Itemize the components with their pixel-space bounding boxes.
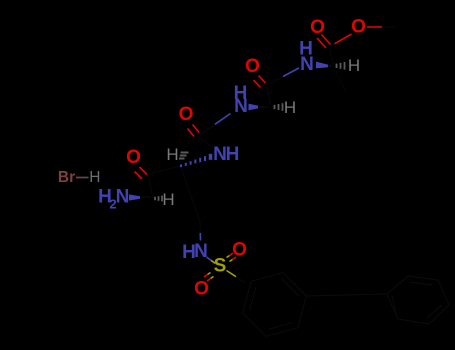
side chain wire CH2-CH2 [191, 196, 200, 222]
wire N2 to urea carbonyl C [200, 137, 213, 148]
wire C4 up to ester carbonyl [330, 49, 334, 65]
sulfonamide HN label [182, 241, 208, 263]
svg-text:N: N [300, 54, 314, 75]
svg-text:O: O [194, 279, 209, 300]
svg-text:H: H [226, 144, 240, 165]
svg-text:H: H [348, 56, 360, 75]
benzene ring of tosyl group [243, 273, 307, 337]
svg-text:N: N [194, 241, 208, 262]
wedge N3 to stereo C3 [249, 104, 271, 111]
wire ketone C to stereo C2 [150, 166, 181, 174]
sulfur S label [214, 256, 227, 277]
side chain stub on C4 [334, 68, 346, 92]
svg-text:S: S [214, 256, 227, 277]
hash wedge stereo C2 to H (upward) [179, 153, 189, 159]
svg-text:O: O [351, 17, 366, 38]
svg-text:O: O [245, 56, 260, 77]
wire N5 to S (half blue half yellow) [207, 257, 216, 263]
double bond C=O4 [317, 35, 331, 49]
wire Br-H bond [76, 177, 89, 179]
wire O5 to methyl (half red half dark) [367, 26, 397, 28]
stereo H on C3 [284, 98, 296, 117]
svg-text:H: H [166, 145, 178, 164]
wire urea C to N3 (half dark half blue) [200, 114, 231, 136]
svg-text:Br: Br [58, 169, 75, 186]
hashed wedge C2 to urea NH (blue) [181, 154, 211, 167]
wedge bond N to alpha C1 [129, 194, 153, 200]
ester O5 label [351, 17, 366, 38]
hash wedge C4 to H [337, 62, 345, 70]
urea NH label (N2) [213, 144, 239, 165]
svg-text:H: H [162, 190, 174, 209]
urea N3 label [234, 96, 248, 117]
svg-text:H: H [89, 169, 100, 186]
stereo H on C4 [348, 56, 360, 75]
wire ring to right ring [306, 294, 386, 296]
S=O7 oxygen label [194, 279, 209, 300]
side chain wire CH2 to N5 (dark then blue) [199, 222, 202, 241]
amide N4 label [300, 54, 314, 75]
double bond C=O2 [188, 125, 200, 137]
svg-text:N: N [116, 187, 130, 208]
side chain wire C2 down (CH2) [181, 167, 191, 196]
amide N4 H label [299, 39, 313, 60]
hydrogen bromide Br label [58, 169, 75, 186]
amine H2N label [98, 187, 129, 212]
hash wedge C3 to H [275, 103, 283, 111]
S=O7 double bond [204, 273, 214, 282]
double bond C1=O1 [135, 167, 148, 179]
hydrogen of HBr [89, 169, 100, 186]
right benzene ring [387, 276, 449, 324]
amide carbonyl O3 label [245, 56, 260, 77]
svg-text:N: N [234, 96, 248, 117]
svg-text:H: H [284, 98, 296, 117]
hash wedge alpha C1 to H [155, 196, 162, 202]
stereo H on alpha C1 [162, 190, 174, 209]
wire alpha C1 to ketone carbon [149, 176, 153, 194]
carbonyl O1 label [126, 147, 141, 168]
wedge N4 to stereo C4 [316, 62, 334, 69]
ester carbonyl O4 label [310, 17, 325, 38]
svg-text:O: O [126, 147, 141, 168]
wire S to ring ipso (half yellow half dark) [227, 271, 246, 284]
svg-text:O: O [179, 104, 194, 125]
wire amide C to N4 (half dark half blue) [267, 68, 299, 85]
svg-text:O: O [232, 240, 247, 261]
urea N3 H label [234, 83, 248, 104]
stereo H on C2 [166, 145, 178, 164]
wire ester C to O5 (half dark half red) [329, 34, 352, 47]
double bond C=O3 [254, 76, 266, 88]
S=O6 oxygen label [232, 240, 247, 261]
wire C3 up to amide carbonyl [267, 87, 271, 105]
S=O6 double bond [227, 253, 237, 262]
urea carbonyl O2 label [179, 104, 194, 125]
